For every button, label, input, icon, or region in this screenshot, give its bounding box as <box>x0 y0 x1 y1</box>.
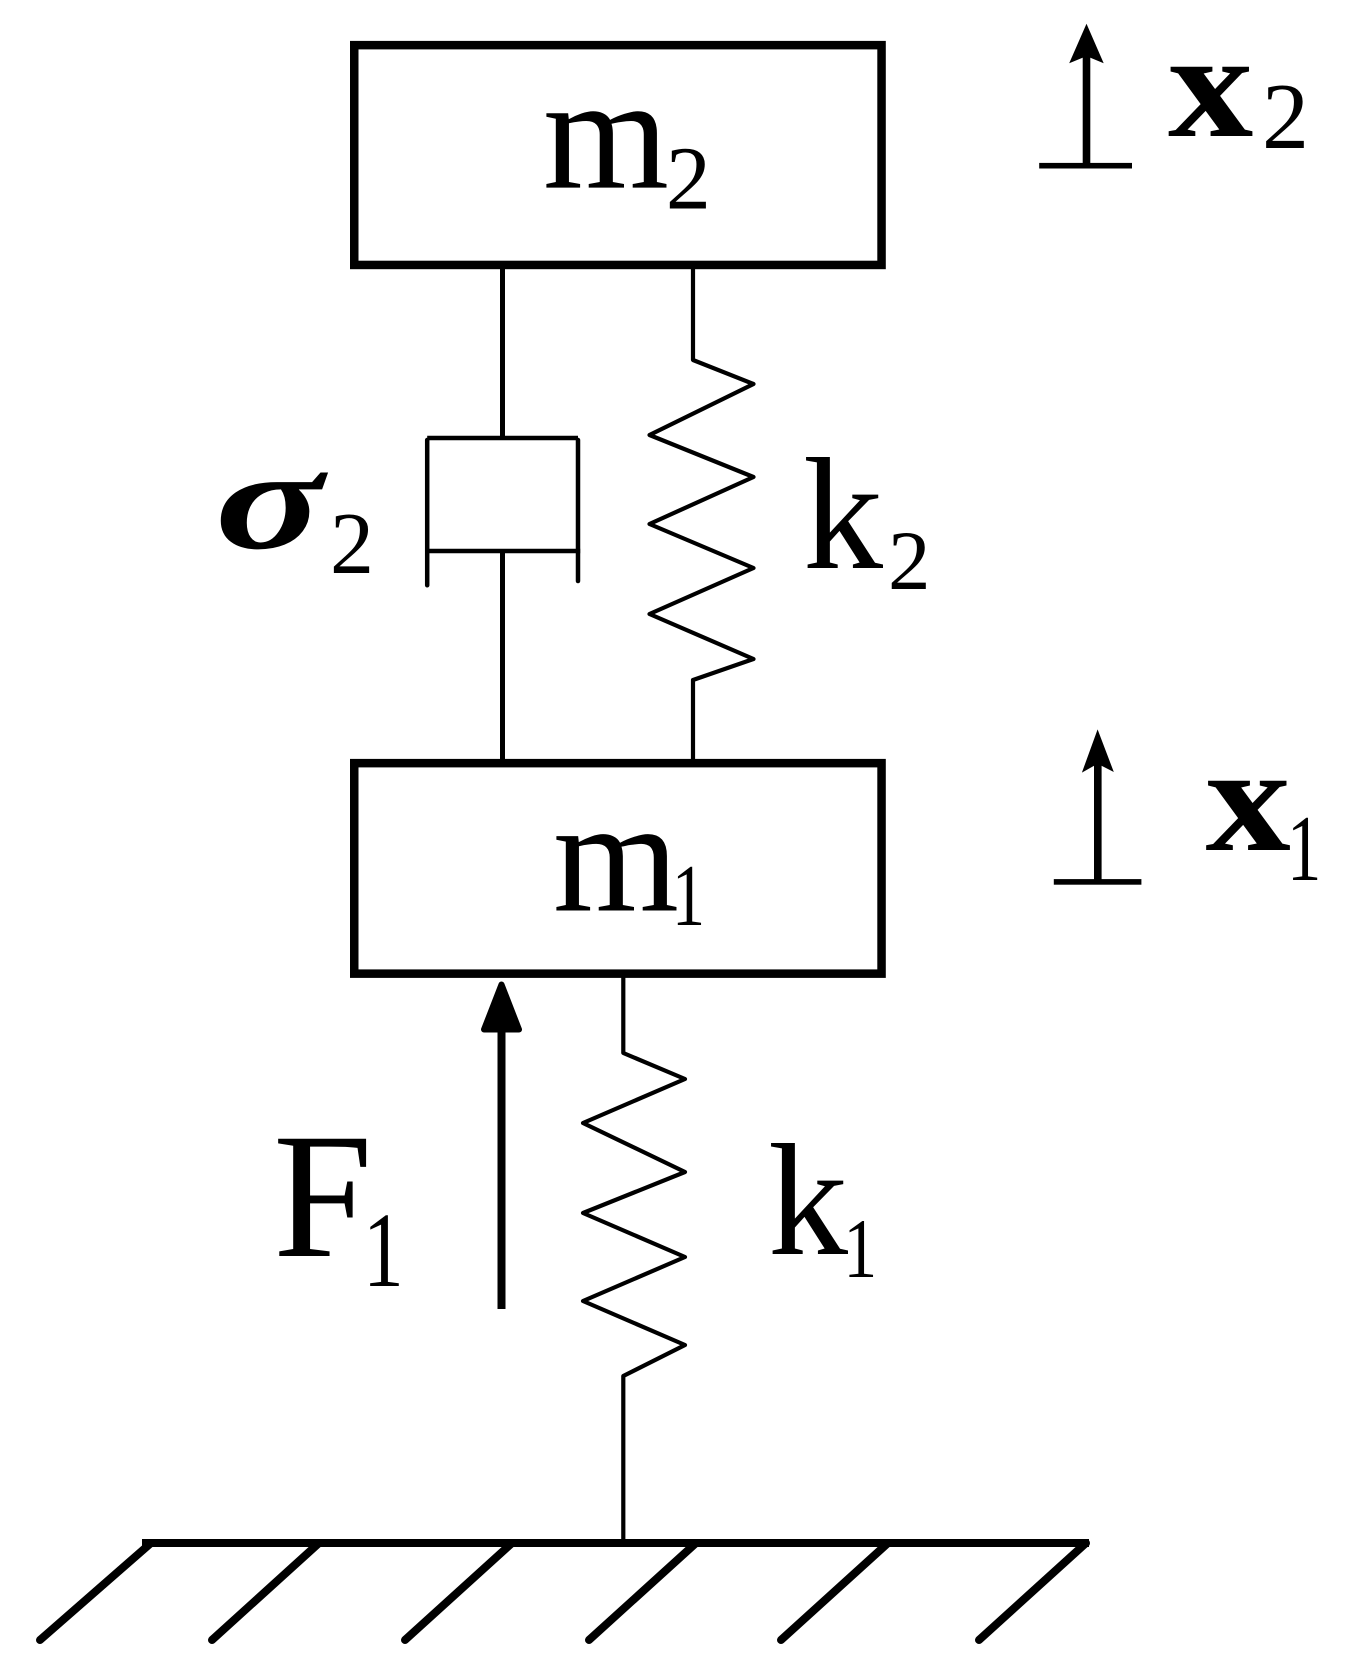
svg-text:k: k <box>768 1111 848 1289</box>
svg-text:σ: σ <box>215 420 329 579</box>
damper sigma2 (cylinder with piston) <box>425 438 580 585</box>
mass m2 <box>354 45 881 265</box>
svg-text:F: F <box>273 1096 373 1295</box>
ground hatching <box>40 1543 1086 1640</box>
svg-text:2: 2 <box>330 496 374 593</box>
coordinate arrow x1 <box>1094 758 1102 882</box>
svg-text:x: x <box>1168 1 1253 169</box>
force arrow F1 (applied to m1) <box>498 1020 506 1309</box>
spring k2 <box>650 264 754 761</box>
svg-text:k: k <box>803 425 883 603</box>
svg-text:x: x <box>1206 715 1291 883</box>
svg-text:1: 1 <box>363 1190 404 1309</box>
spring k1 <box>583 974 685 1540</box>
coordinate arrow x2 <box>1083 50 1091 166</box>
svg-text:m: m <box>543 45 669 224</box>
svg-text:1: 1 <box>672 847 705 944</box>
svg-text:2: 2 <box>666 130 711 229</box>
mass m1 <box>354 763 881 974</box>
wire: rod from mass m2 down to damper <box>500 264 505 440</box>
wire: rod from damper down to mass m1 <box>500 551 505 763</box>
svg-text:1: 1 <box>1287 797 1321 901</box>
ground line <box>142 1539 1089 1547</box>
svg-text:1: 1 <box>844 1202 878 1296</box>
svg-text:2: 2 <box>1262 65 1309 169</box>
svg-text:2: 2 <box>888 514 931 608</box>
svg-text:m: m <box>553 768 679 947</box>
